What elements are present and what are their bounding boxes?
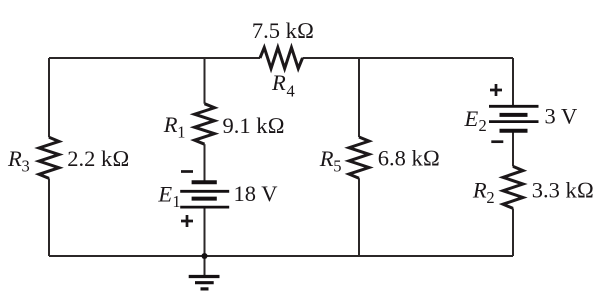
svg-text:E: E	[157, 181, 172, 206]
svg-text:R: R	[7, 146, 22, 171]
svg-text:5: 5	[333, 157, 341, 176]
svg-text:R: R	[271, 70, 286, 95]
svg-text:9.1 kΩ: 9.1 kΩ	[223, 113, 285, 138]
svg-text:6.8 kΩ: 6.8 kΩ	[378, 146, 440, 171]
svg-text:1: 1	[172, 192, 180, 211]
svg-text:1: 1	[177, 122, 185, 141]
svg-text:R: R	[319, 146, 334, 171]
svg-text:E: E	[464, 106, 479, 131]
svg-text:4: 4	[287, 81, 295, 100]
svg-text:3.3 kΩ: 3.3 kΩ	[532, 177, 594, 202]
svg-text:2: 2	[486, 188, 494, 207]
svg-text:3 V: 3 V	[545, 104, 578, 129]
svg-text:18 V: 18 V	[234, 181, 278, 206]
svg-text:R: R	[472, 178, 487, 203]
svg-text:2: 2	[479, 116, 487, 135]
svg-text:3: 3	[22, 157, 30, 176]
svg-text:R: R	[163, 112, 178, 137]
svg-text:7.5 kΩ: 7.5 kΩ	[252, 18, 314, 43]
svg-text:2.2 kΩ: 2.2 kΩ	[67, 146, 129, 171]
